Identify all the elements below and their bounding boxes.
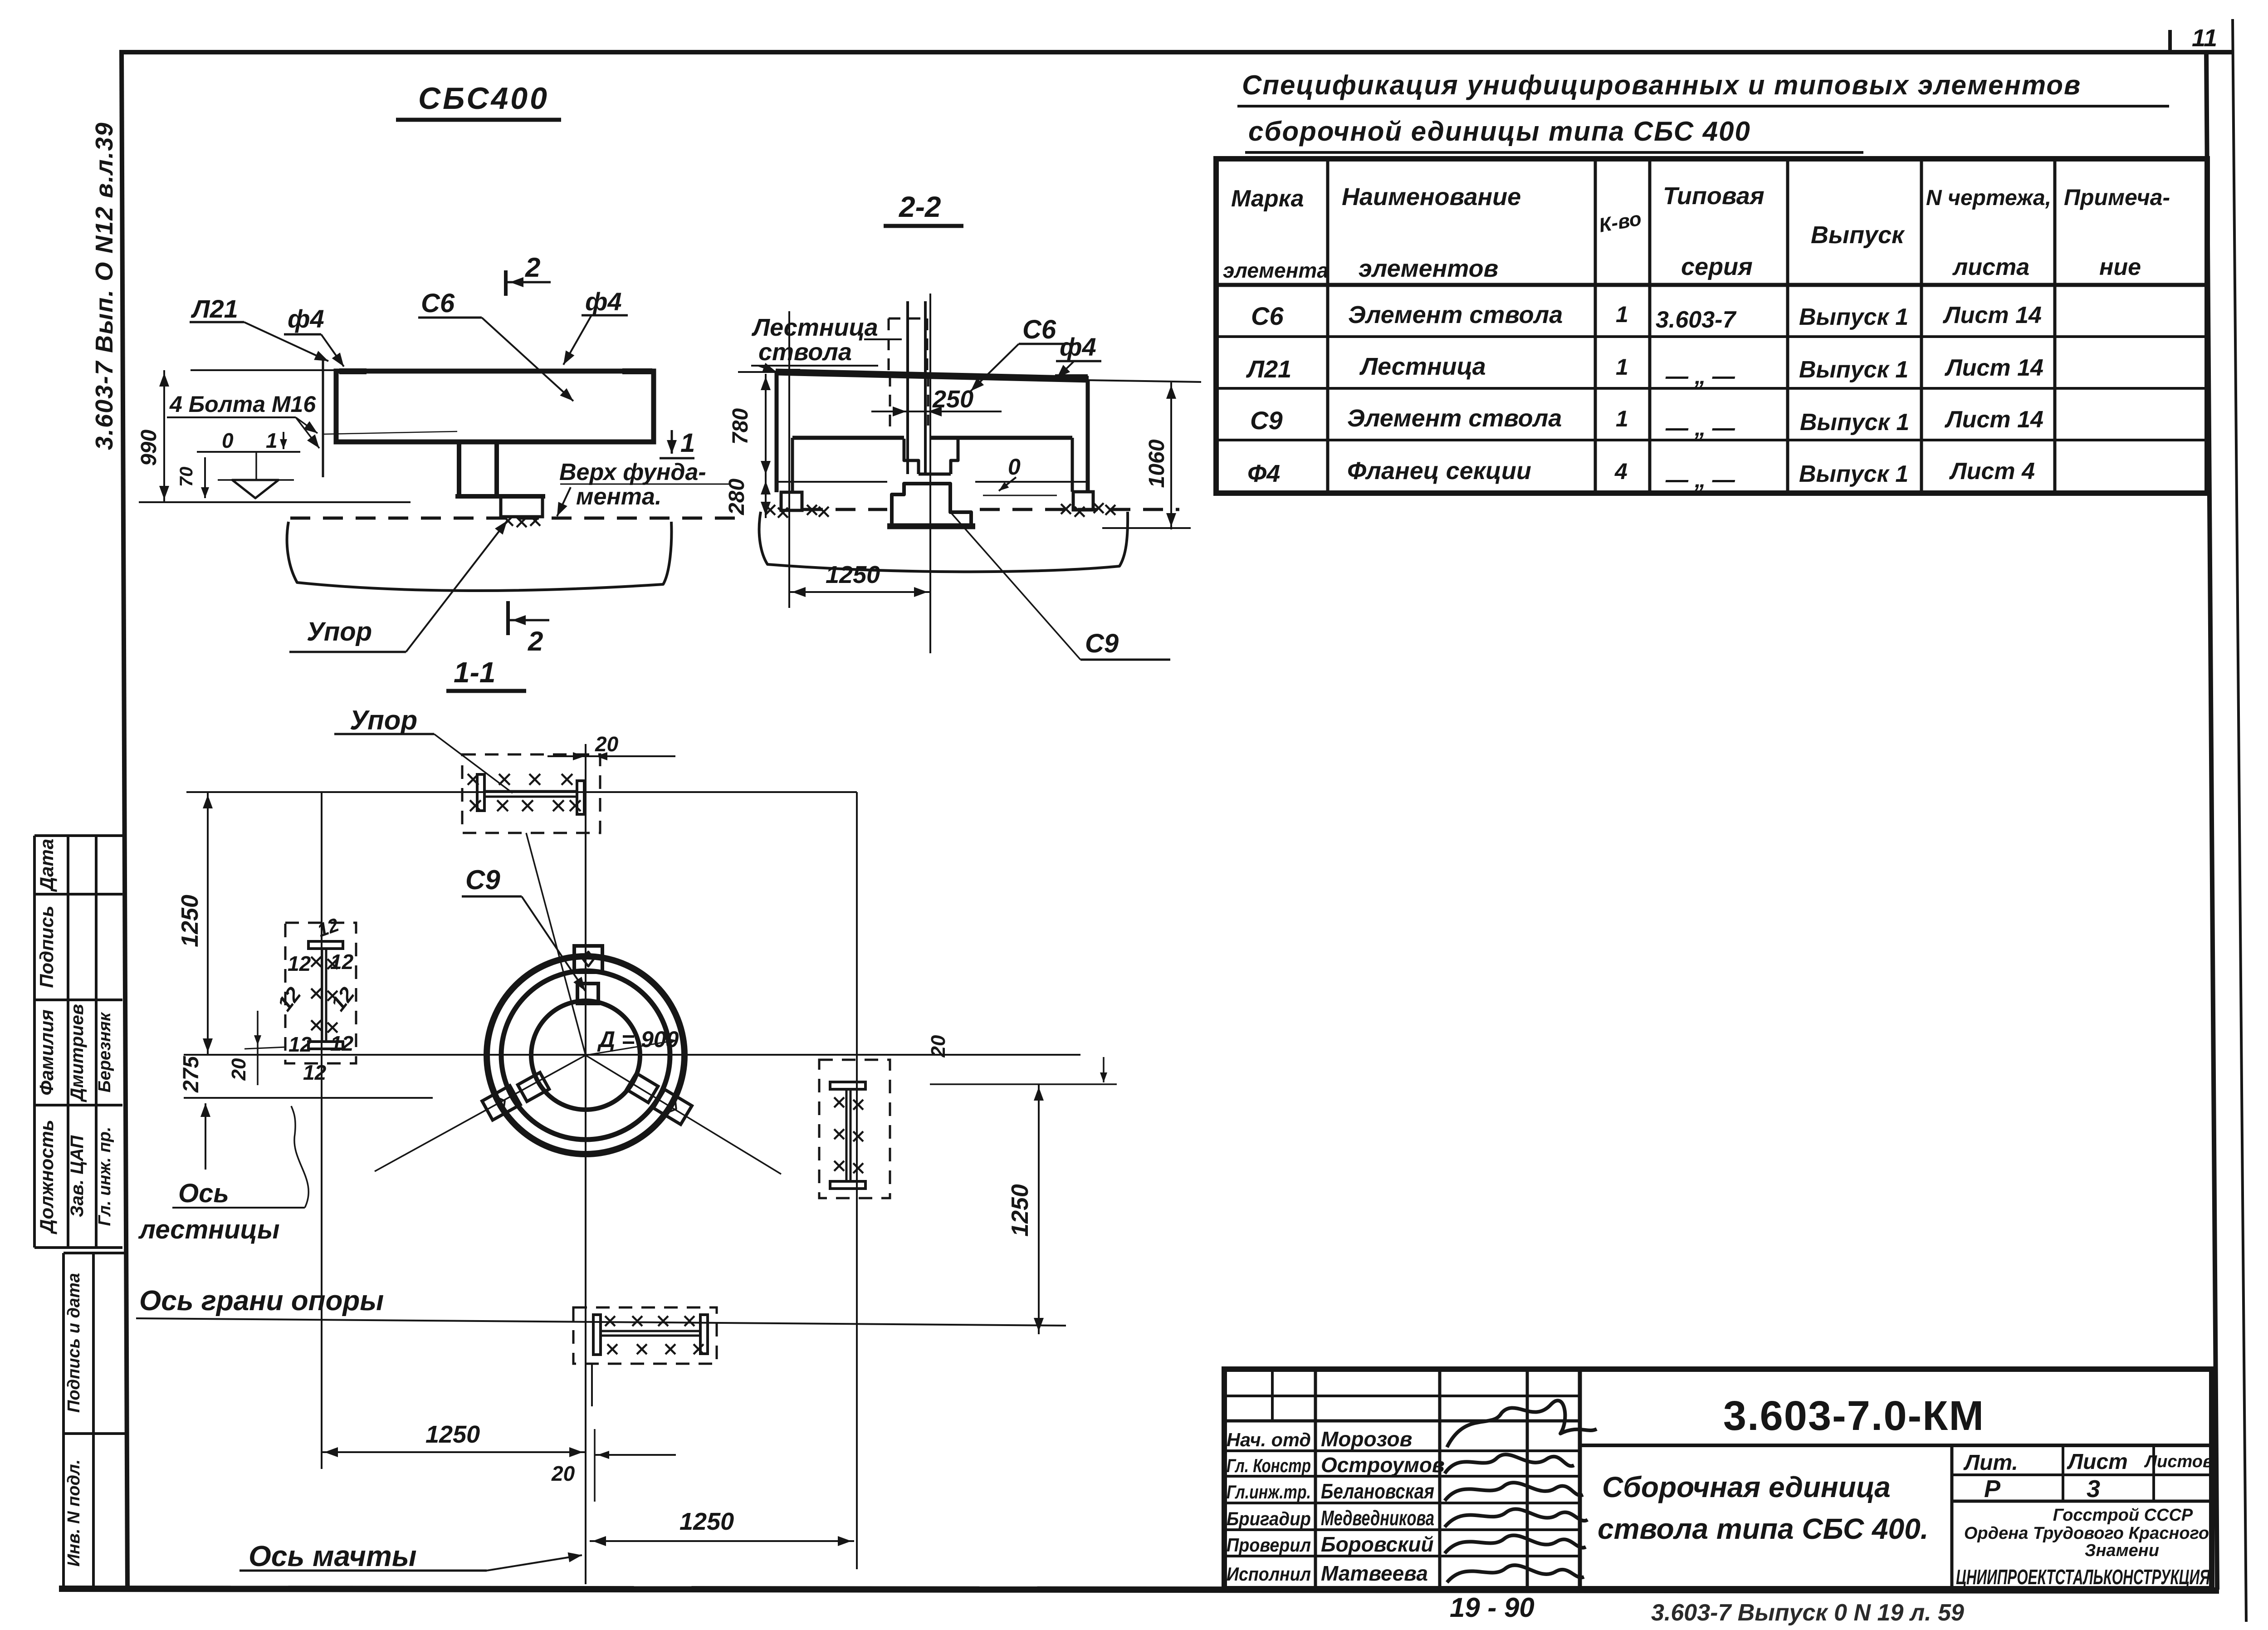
svg-text:С6: С6 [1022, 315, 1056, 344]
svg-text:Упор: Упор [307, 617, 372, 646]
svg-text:Остроумов: Остроумов [1321, 1453, 1445, 1477]
svg-text:Выпуск: Выпуск [1811, 221, 1905, 249]
svg-text:ф4: ф4 [288, 304, 324, 333]
svg-text:Матвеева: Матвеева [1321, 1561, 1428, 1585]
svg-text:Знамени: Знамени [2085, 1541, 2159, 1560]
svg-text:сборочной единицы типа СБС: сборочной единицы типа СБС 400 [1248, 116, 1751, 147]
svg-text:Фамилия: Фамилия [36, 1009, 57, 1095]
svg-text:ф4: ф4 [585, 287, 622, 316]
svg-text:Сборочная единица: Сборочная единица [1602, 1471, 1891, 1503]
svg-text:1250: 1250 [679, 1508, 734, 1535]
svg-text:3.603-7 Вып. О N12 в.л.39: 3.603-7 Вып. О N12 в.л.39 [91, 122, 118, 450]
svg-text:Подпись: Подпись [36, 906, 57, 988]
svg-text:1: 1 [1616, 302, 1628, 327]
svg-text:Наименование: Наименование [1342, 183, 1521, 210]
svg-text:С6: С6 [421, 289, 455, 318]
svg-text:4: 4 [1614, 459, 1628, 484]
svg-text:12: 12 [330, 1032, 354, 1055]
svg-text:990: 990 [137, 430, 161, 466]
svg-text:Зав. ЦАП: Зав. ЦАП [67, 1135, 87, 1217]
svg-text:Медведникова: Медведникова [1321, 1506, 1434, 1530]
svg-text:275: 275 [179, 1056, 203, 1093]
svg-text:Ордена Трудового Красного: Ордена Трудового Красного [1964, 1524, 2209, 1543]
svg-text:Гл.инж.тр.: Гл.инж.тр. [1227, 1481, 1311, 1503]
svg-text:Госстрой СССР: Госстрой СССР [2053, 1506, 2193, 1525]
svg-text:70: 70 [176, 467, 196, 487]
svg-text:Белановская: Белановская [1321, 1479, 1434, 1503]
svg-text:2-2: 2-2 [899, 191, 941, 223]
svg-text:250: 250 [932, 386, 973, 413]
svg-text:ствола типа СБС 400.: ствола типа СБС 400. [1598, 1513, 1929, 1545]
svg-text:12: 12 [330, 950, 354, 974]
svg-text:20: 20 [595, 732, 619, 756]
svg-text:С9: С9 [465, 865, 500, 895]
svg-text:Листов: Листов [2144, 1452, 2213, 1471]
svg-text:Лист 4: Лист 4 [1949, 458, 2035, 485]
svg-text:Р: Р [1984, 1475, 2001, 1503]
svg-text:Бригадир: Бригадир [1227, 1508, 1311, 1529]
svg-text:Ось мачты: Ось мачты [249, 1540, 417, 1572]
svg-text:N чертежа,: N чертежа, [1926, 186, 2051, 210]
svg-text:мента.: мента. [576, 484, 661, 510]
svg-text:элемента: элемента [1223, 259, 1329, 282]
svg-text:11: 11 [2192, 24, 2217, 52]
svg-text:Гл. Констр: Гл. Констр [1227, 1455, 1311, 1476]
svg-text:— „ —: — „ — [1665, 363, 1735, 389]
svg-text:2: 2 [525, 252, 540, 283]
svg-text:Типовая: Типовая [1663, 182, 1765, 210]
svg-text:1: 1 [266, 429, 278, 452]
svg-text:Лист: Лист [2067, 1450, 2128, 1474]
svg-text:Исполнил: Исполнил [1227, 1563, 1311, 1585]
svg-text:1250: 1250 [1007, 1184, 1033, 1237]
svg-text:2: 2 [528, 626, 543, 656]
svg-text:0: 0 [222, 429, 234, 452]
svg-text:1: 1 [1616, 354, 1628, 380]
svg-text:Выпуск 1: Выпуск 1 [1799, 357, 1908, 383]
svg-text:3.603-7 Выпуск 0 N 19 л: 3.603-7 Выпуск 0 N 19 л. 59 [1651, 1600, 1964, 1626]
svg-text:12: 12 [288, 1033, 312, 1056]
svg-text:20: 20 [551, 1462, 575, 1485]
svg-text:0: 0 [1008, 454, 1021, 480]
svg-text:Элемент ствола: Элемент ствола [1347, 405, 1562, 432]
svg-text:ствола: ствола [758, 338, 852, 366]
svg-text:Лит.: Лит. [1963, 1451, 2018, 1475]
svg-text:Примеча-: Примеча- [2064, 185, 2170, 210]
svg-text:Должность: Должность [36, 1120, 57, 1234]
svg-text:ф4: ф4 [1060, 333, 1096, 361]
svg-text:Лист 14: Лист 14 [1944, 355, 2043, 381]
svg-text:С9: С9 [1250, 406, 1283, 435]
svg-text:Элемент ствола: Элемент ствола [1348, 301, 1563, 328]
svg-text:Д = 900: Д = 900 [597, 1027, 679, 1052]
svg-text:1: 1 [680, 428, 695, 458]
svg-text:листа: листа [1952, 254, 2029, 280]
svg-text:780: 780 [728, 408, 753, 445]
svg-text:20: 20 [927, 1035, 949, 1057]
svg-text:Инв. N подл.: Инв. N подл. [64, 1459, 83, 1566]
svg-text:Лестница: Лестница [1359, 353, 1486, 380]
svg-text:Дата: Дата [36, 839, 57, 892]
svg-text:280: 280 [725, 479, 749, 515]
svg-text:1250: 1250 [826, 561, 880, 588]
svg-text:Дмитриев: Дмитриев [67, 1004, 87, 1102]
svg-text:лестницы: лестницы [138, 1215, 280, 1244]
svg-text:серия: серия [1681, 253, 1753, 280]
svg-text:19 - 90: 19 - 90 [1450, 1592, 1535, 1623]
svg-text:1060: 1060 [1145, 439, 1169, 488]
svg-text:Подпись и дата: Подпись и дата [64, 1273, 83, 1413]
svg-text:Л21: Л21 [1246, 356, 1291, 383]
svg-text:Выпуск 1: Выпуск 1 [1800, 409, 1909, 436]
svg-text:1250: 1250 [425, 1421, 480, 1448]
svg-text:Боровский: Боровский [1321, 1532, 1434, 1556]
svg-text:С9: С9 [1085, 629, 1119, 658]
svg-text:Спецификация унифицированных: Спецификация унифицированных и типовых э… [1242, 70, 2081, 100]
svg-text:Ф4: Ф4 [1247, 460, 1280, 487]
svg-text:Проверил: Проверил [1227, 1534, 1311, 1556]
svg-text:Верх фунда-: Верх фунда- [559, 459, 706, 485]
svg-text:Упор: Упор [350, 705, 417, 735]
svg-text:Л21: Л21 [191, 294, 238, 323]
svg-text:Березняк: Березняк [95, 1012, 114, 1092]
svg-text:Нач. отд: Нач. отд [1227, 1429, 1311, 1450]
svg-text:Ось грани опоры: Ось грани опоры [139, 1285, 384, 1317]
svg-text:Лист 14: Лист 14 [1942, 302, 2042, 328]
svg-text:Лестница: Лестница [751, 314, 878, 341]
svg-text:СБС400: СБС400 [418, 81, 549, 116]
svg-text:— „ —: — „ — [1665, 467, 1735, 492]
svg-text:ЦНИИПРОЕКТСТАЛЬКОНСТРУКЦИЯ: ЦНИИПРОЕКТСТАЛЬКОНСТРУКЦИЯ [1956, 1565, 2210, 1589]
svg-text:— „ —: — „ — [1665, 415, 1735, 441]
svg-text:элементов: элементов [1359, 255, 1498, 282]
svg-text:3.603-7: 3.603-7 [1656, 307, 1736, 333]
svg-text:Марка: Марка [1231, 186, 1304, 212]
svg-text:Морозов: Морозов [1321, 1427, 1412, 1451]
svg-text:С6: С6 [1251, 302, 1284, 330]
svg-text:Выпуск 1: Выпуск 1 [1799, 304, 1908, 330]
svg-text:12: 12 [288, 952, 311, 975]
svg-text:1: 1 [1616, 406, 1628, 431]
svg-text:1-1: 1-1 [454, 656, 496, 689]
svg-text:Ось: Ось [178, 1179, 229, 1208]
svg-text:Выпуск 1: Выпуск 1 [1799, 461, 1908, 487]
svg-text:12: 12 [303, 1061, 327, 1084]
svg-text:Фланец секции: Фланец секции [1347, 457, 1531, 485]
svg-text:Лист 14: Лист 14 [1944, 406, 2043, 433]
svg-text:3: 3 [2087, 1475, 2100, 1503]
svg-text:3.603-7.0-КМ: 3.603-7.0-КМ [1723, 1393, 1984, 1439]
svg-text:20: 20 [228, 1058, 250, 1081]
svg-text:4 Болта М16: 4 Болта М16 [169, 392, 316, 417]
svg-text:ние: ние [2099, 254, 2141, 280]
svg-text:1250: 1250 [177, 895, 203, 947]
svg-text:Гл. инж. пр.: Гл. инж. пр. [95, 1127, 114, 1226]
